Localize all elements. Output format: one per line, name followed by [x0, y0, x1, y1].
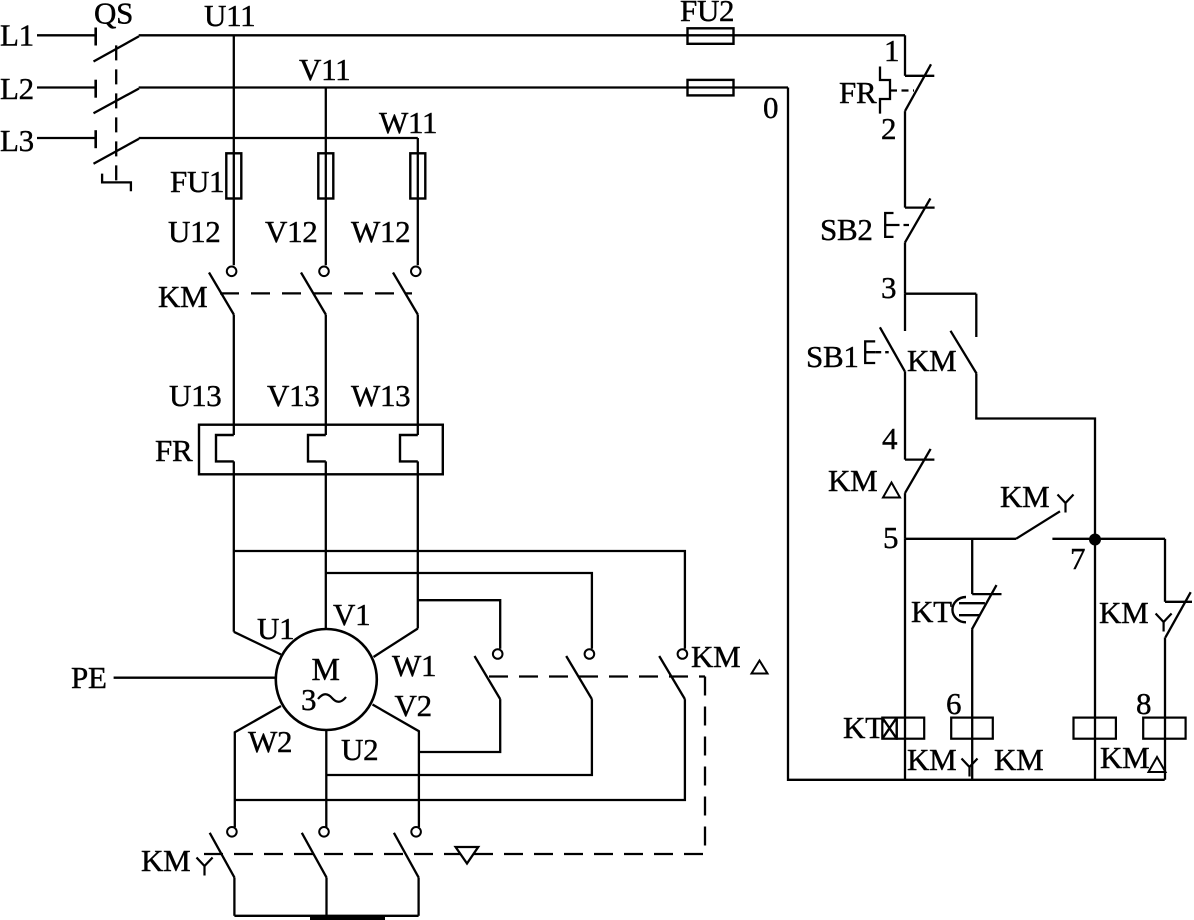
- svg-text:U2: U2: [341, 732, 378, 767]
- svg-text:QS: QS: [94, 0, 133, 31]
- svg-text:FR: FR: [839, 75, 877, 110]
- svg-text:KM: KM: [1100, 740, 1149, 775]
- svg-text:KT: KT: [911, 594, 952, 629]
- svg-text:W2: W2: [248, 724, 292, 759]
- svg-text:W11: W11: [379, 105, 437, 140]
- svg-text:2: 2: [881, 111, 896, 146]
- svg-text:3: 3: [301, 682, 316, 717]
- svg-text:L1: L1: [0, 18, 34, 53]
- svg-text:FU2: FU2: [680, 0, 734, 28]
- svg-text:KM: KM: [691, 639, 740, 674]
- svg-text:PE: PE: [71, 660, 107, 695]
- svg-text:U11: U11: [204, 0, 255, 33]
- svg-text:W1: W1: [392, 648, 436, 683]
- svg-text:V12: V12: [265, 214, 318, 249]
- svg-text:5: 5: [883, 520, 898, 555]
- svg-text:SB1: SB1: [806, 339, 859, 374]
- svg-text:1: 1: [884, 33, 899, 68]
- svg-text:0: 0: [763, 90, 778, 125]
- svg-text:W12: W12: [351, 214, 410, 249]
- svg-text:FR: FR: [155, 433, 193, 468]
- svg-text:7: 7: [1070, 541, 1085, 576]
- svg-text:KM: KM: [907, 343, 956, 378]
- svg-text:3: 3: [881, 270, 896, 305]
- svg-text:KT: KT: [843, 710, 884, 745]
- svg-text:V2: V2: [395, 688, 432, 723]
- svg-text:4: 4: [882, 421, 898, 456]
- svg-text:V13: V13: [267, 378, 320, 413]
- svg-text:8: 8: [1136, 686, 1151, 721]
- svg-text:KM: KM: [994, 742, 1043, 777]
- svg-text:L3: L3: [0, 123, 34, 158]
- svg-text:6: 6: [946, 686, 961, 721]
- svg-text:KM: KM: [907, 742, 956, 777]
- svg-text:W13: W13: [351, 378, 410, 413]
- svg-text:KM: KM: [1099, 595, 1148, 630]
- svg-text:FU1: FU1: [170, 164, 224, 199]
- svg-text:U1: U1: [257, 611, 294, 646]
- svg-text:L2: L2: [0, 71, 34, 106]
- svg-text:V11: V11: [299, 52, 350, 87]
- svg-text:KM: KM: [158, 279, 207, 314]
- svg-text:SB2: SB2: [820, 212, 873, 247]
- svg-text:V1: V1: [333, 597, 370, 632]
- svg-text:U12: U12: [168, 214, 221, 249]
- svg-text:KM: KM: [141, 843, 190, 878]
- svg-text:KM: KM: [1000, 479, 1049, 514]
- svg-text:U13: U13: [169, 378, 222, 413]
- svg-text:KM: KM: [828, 463, 877, 498]
